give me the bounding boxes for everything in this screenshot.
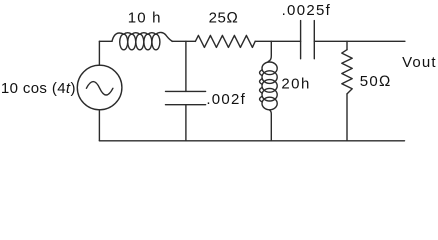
svg-text:Vout: Vout (402, 54, 437, 71)
svg-text:10 cos (4t): 10 cos (4t) (1, 80, 76, 97)
svg-text:10 h: 10 h (128, 10, 162, 27)
svg-text:25Ω: 25Ω (209, 10, 239, 27)
svg-text:.0025f: .0025f (282, 2, 332, 19)
svg-text:50Ω: 50Ω (360, 73, 392, 90)
svg-text:.002f: .002f (206, 91, 246, 108)
svg-text:20h: 20h (281, 76, 310, 93)
